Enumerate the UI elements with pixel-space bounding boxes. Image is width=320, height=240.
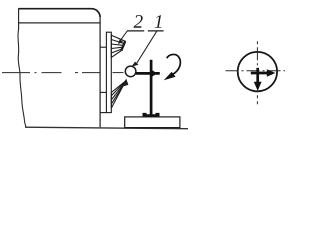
measuring direction arrow down — [254, 68, 262, 91]
leader line to 2 — [120, 31, 128, 42]
machine housing right edge — [99, 17, 101, 127]
bevel gear upper section — [111, 35, 125, 57]
hub lower line — [100, 91, 106, 93]
machine housing top edge — [19, 9, 101, 18]
machine housing left edge — [18, 8, 20, 29]
leader arrowhead 2 — [118, 39, 123, 44]
label 2 — [134, 15, 143, 28]
dial indicator circle — [238, 52, 277, 91]
label 1 underline — [148, 30, 164, 32]
rotation arrow — [164, 54, 181, 80]
stand foot clamp — [143, 113, 160, 117]
indicator arm — [136, 72, 160, 75]
machine housing step line — [19, 22, 101, 24]
surface plate line — [25, 127, 188, 129]
faceplate disc — [106, 32, 111, 112]
stand base — [125, 117, 180, 128]
centerline through gear — [113, 72, 126, 74]
spindle centerline — [2, 72, 100, 74]
leader line to 1 — [137, 31, 157, 64]
stand post — [150, 60, 153, 115]
hub upper line — [100, 46, 106, 48]
label 2 underline — [127, 30, 144, 32]
measuring direction arrow right — [251, 69, 276, 77]
dial vertical centerline — [256, 41, 258, 104]
bevel gear lower section — [111, 79, 128, 109]
faceplate bottom step — [100, 112, 106, 114]
break (wavy) line — [18, 29, 26, 127]
measuring ball tip 1 — [125, 66, 136, 77]
leader arrowhead 1 — [131, 62, 138, 67]
label 1 — [155, 15, 162, 28]
dial horizontal centerline — [226, 70, 286, 72]
arm clamp — [148, 70, 157, 76]
